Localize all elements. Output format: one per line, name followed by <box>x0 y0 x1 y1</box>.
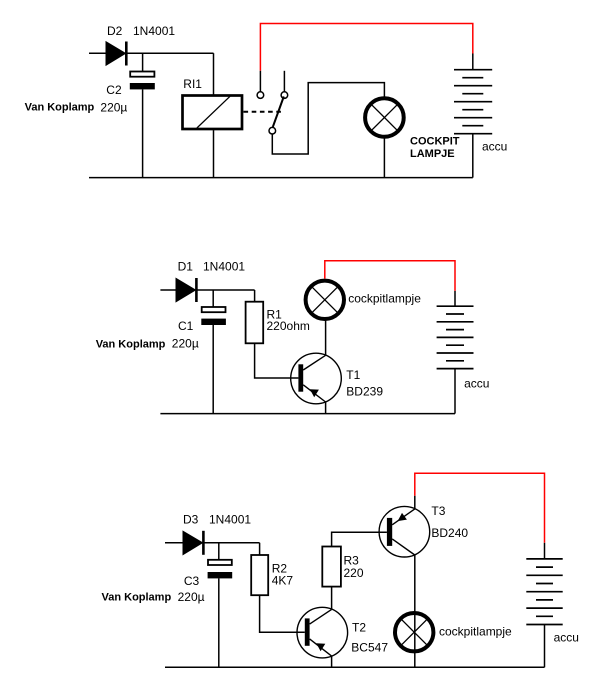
svg-text:accu: accu <box>464 377 489 391</box>
switch contact node (right) <box>281 92 288 99</box>
wire capacitor C3 to bottom rail <box>218 578 220 667</box>
svg-text:220ohm: 220ohm <box>267 319 310 333</box>
resistor R1 <box>246 302 264 344</box>
resistor R2 <box>251 555 268 595</box>
wire bottom rail circuit3 <box>165 666 545 668</box>
svg-text:Van Koplamp: Van Koplamp <box>25 101 95 113</box>
svg-text:C2: C2 <box>106 83 122 97</box>
svg-text:220µ: 220µ <box>100 100 127 114</box>
svg-text:cockpitlampje: cockpitlampje <box>348 291 421 305</box>
wire R2 bottom to T2 base <box>260 595 305 632</box>
svg-text:1N4001: 1N4001 <box>203 260 245 274</box>
wire switch pole to lamp top <box>272 83 384 154</box>
wire battery1 top lead <box>472 54 474 71</box>
wire T3 emitter top lead (black) <box>414 496 416 509</box>
wire junction to capacitor C3 <box>218 543 220 560</box>
svg-text:T3: T3 <box>431 504 445 518</box>
wire R2 top lead <box>259 543 261 555</box>
wire diode D3 to R2 drop <box>203 542 259 544</box>
lamp cockpitlampje (circuit2) <box>306 281 344 319</box>
switch contact node (left) <box>257 92 264 99</box>
svg-text:220µ: 220µ <box>172 337 199 351</box>
svg-text:D3: D3 <box>183 513 199 527</box>
wire stub to left switch contact <box>259 71 261 92</box>
wire T3 collector down through lamp to rail <box>414 555 416 667</box>
transistor T2 <box>297 607 348 658</box>
svg-text:COCKPIT: COCKPIT <box>410 136 460 148</box>
wire R3 top to T3 base <box>332 532 387 546</box>
diode D1 <box>176 278 196 302</box>
capacitor C3 <box>208 560 233 579</box>
svg-text:cockpitlampje: cockpitlampje <box>439 625 512 639</box>
relay RI1 <box>183 96 243 130</box>
switch arm S1 <box>273 97 284 128</box>
switch pole node (bottom) <box>269 127 276 134</box>
svg-text:LAMPJE: LAMPJE <box>410 148 455 160</box>
svg-text:1N4001: 1N4001 <box>133 24 175 38</box>
diode D2 <box>106 42 126 66</box>
lamp cockpitlampje (circuit3) <box>395 613 433 651</box>
svg-text:C3: C3 <box>184 574 200 588</box>
wire T2 emitter to rail <box>331 656 333 667</box>
capacitor C2 <box>130 72 155 90</box>
wire diode D2 to relay drop <box>126 52 213 54</box>
wire lamp bottom to rail (circuit1) <box>383 139 385 178</box>
wire input left circuit1 <box>89 52 107 54</box>
svg-text:accu: accu <box>554 631 579 645</box>
transistor T3 <box>379 506 430 557</box>
wire R1 bottom to T1 base <box>255 343 299 378</box>
wire junction to capacitor C1 <box>212 290 214 307</box>
wire relay coil bottom to rail <box>213 130 215 178</box>
red wire: lamp top over to battery + (circuit2) <box>325 261 455 291</box>
wire input left circuit3 <box>165 542 184 544</box>
svg-text:1N4001: 1N4001 <box>209 513 251 527</box>
wire battery2 bottom lead <box>454 369 456 414</box>
wire battery3 bottom lead <box>544 625 546 668</box>
wire T2 collector to R3 bottom <box>331 587 333 610</box>
lamp COCKPIT LAMPJE (circuit1) <box>365 98 404 137</box>
wire T1 collector to lamp bottom <box>325 321 327 356</box>
svg-text:220: 220 <box>344 566 364 580</box>
svg-text:C1: C1 <box>178 319 194 333</box>
svg-text:Van Koplamp: Van Koplamp <box>96 338 166 350</box>
wire to relay coil top <box>213 53 215 94</box>
wire battery3 top lead <box>544 543 546 559</box>
battery accu (circuit3) <box>526 559 562 625</box>
red wire: T3 emitter over to battery + (circuit3) <box>415 473 545 543</box>
wire bottom rail circuit2 <box>160 413 455 415</box>
wire capacitor C2 to bottom rail <box>142 89 144 177</box>
svg-text:220µ: 220µ <box>178 590 205 604</box>
wire battery1 bottom lead <box>472 134 474 178</box>
svg-text:Van Koplamp: Van Koplamp <box>102 592 172 604</box>
svg-text:BC547: BC547 <box>351 641 388 655</box>
svg-text:D2: D2 <box>107 24 123 38</box>
svg-text:T1: T1 <box>346 368 360 382</box>
dashed actuator link relay RI1 to switch <box>244 111 282 113</box>
wire capacitor C1 to bottom rail <box>212 325 214 414</box>
svg-text:RI1: RI1 <box>183 77 202 91</box>
diode D3 <box>183 531 203 555</box>
svg-text:T2: T2 <box>352 620 366 634</box>
svg-text:BD240: BD240 <box>431 526 468 540</box>
wire bottom rail circuit1 <box>89 177 473 179</box>
svg-text:BD239: BD239 <box>346 385 383 399</box>
svg-text:accu: accu <box>482 139 507 153</box>
red wire: switch common up and over to battery + <box>260 24 472 71</box>
wire junction to capacitor C2 <box>142 53 144 71</box>
svg-text:4K7: 4K7 <box>272 574 294 588</box>
battery accu (circuit2) <box>437 306 474 368</box>
resistor R3 <box>322 547 341 587</box>
wire stub to right switch contact <box>283 71 285 92</box>
wire diode D1 to R1 drop <box>196 289 254 291</box>
wire input left circuit2 <box>160 289 177 291</box>
battery accu (circuit1) <box>454 70 492 134</box>
svg-text:D1: D1 <box>178 260 194 274</box>
wire battery2 top lead <box>454 291 456 306</box>
wire T1 emitter to rail <box>325 402 327 414</box>
capacitor C1 <box>201 307 226 325</box>
wire R1 top lead <box>254 290 256 302</box>
transistor T1 <box>291 353 342 404</box>
